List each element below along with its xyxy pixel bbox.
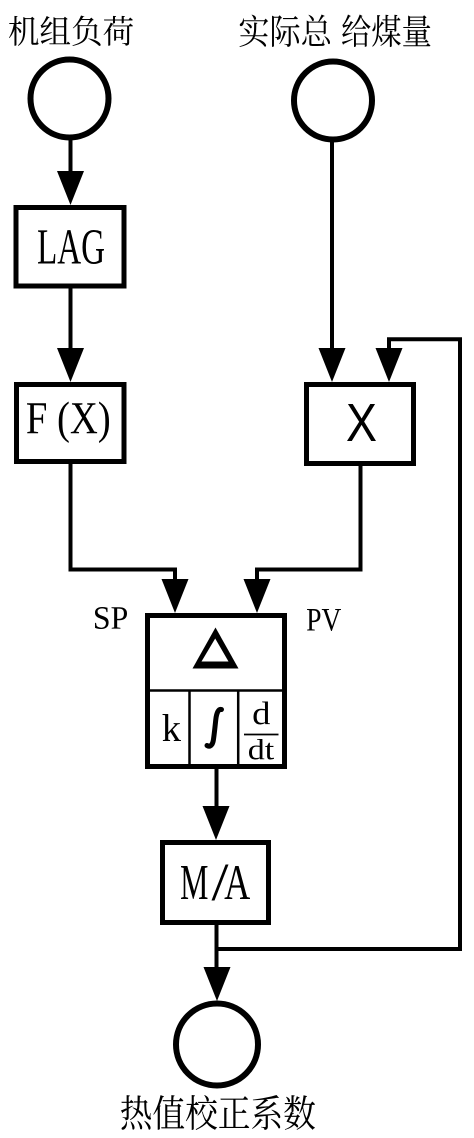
wire: comparator output to M/A — [215, 769, 219, 812]
arrowhead PV into comparator — [244, 579, 271, 613]
arrowhead into M/A — [203, 806, 230, 840]
arrowhead into output circle — [204, 967, 231, 1001]
block F(X) — [17, 385, 125, 462]
wire: M/A output to 热值校正系数 node — [215, 925, 219, 972]
wire: X block to PV input of comparator (elbow) — [257, 466, 361, 585]
wire: 机组负荷 circle to LAG block — [69, 99, 73, 181]
block LAG — [16, 208, 124, 287]
label X — [347, 404, 376, 441]
divider: comparator horizontal — [146, 689, 286, 692]
label ∫ (integral) — [207, 709, 222, 746]
fraction bar of d/dt — [244, 734, 279, 736]
block comparator/PID — [148, 616, 285, 767]
divider: comparator vertical right — [237, 691, 240, 768]
label: output node 热值校正系数 (calorific value correction coefficient) — [121, 1095, 315, 1130]
divider: comparator vertical left — [188, 691, 191, 768]
block X (multiplier) — [307, 385, 414, 464]
wire: 实际总给煤量 circle to X block — [330, 101, 334, 356]
arrowhead into X (from input circle) — [319, 348, 346, 382]
node circle: 机组负荷 input — [31, 60, 109, 138]
arrowhead SP into comparator — [162, 579, 189, 613]
block M/A (manual/auto station) — [163, 843, 269, 923]
label d/dt numerator d — [254, 702, 271, 725]
label SP — [95, 607, 127, 629]
symbol: delta (deviation) triangle — [193, 628, 239, 669]
node circle: 热值校正系数 output — [176, 1004, 258, 1086]
wire: F(X) to SP input of comparator (elbow) — [71, 464, 176, 585]
label M/A — [181, 866, 208, 899]
wire: LAG to F(X) — [69, 288, 73, 355]
label F(X) — [27, 402, 109, 444]
label k (proportional) — [163, 714, 182, 741]
node circle: 实际总给煤量 input — [294, 62, 372, 140]
arrowhead into LAG — [57, 171, 84, 205]
label d/dt denominator dt — [249, 739, 274, 760]
label: input node 机组负荷 (unit load) — [9, 16, 133, 47]
label: input node 实际总给煤量 (actual total coal feed) — [240, 15, 330, 48]
wire: feedback branch M/A output up right side into X block — [217, 339, 461, 949]
label PV — [307, 609, 341, 631]
arrowhead into X (feedback) — [376, 348, 403, 382]
label LAG — [38, 230, 104, 264]
arrowhead into F(X) — [57, 348, 84, 382]
